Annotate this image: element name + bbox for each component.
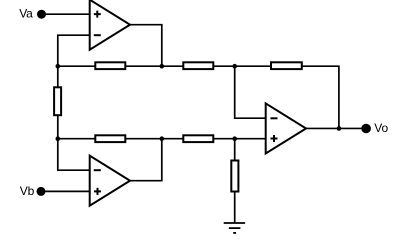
op-amp U1	[90, 0, 130, 50]
resistor R7	[231, 161, 238, 192]
op-amp U2	[90, 156, 130, 206]
resistor R5	[95, 135, 125, 142]
wire U1 output down to upper bus	[130, 25, 162, 66]
resistor R6	[183, 135, 213, 142]
wire U2 - input to node D	[58, 139, 90, 171]
wire node B down to U3 - input	[235, 66, 266, 118]
node output junction	[337, 126, 342, 131]
wire left vertical node A to node D	[57, 66, 59, 139]
wire U3 output to Vo terminal	[306, 127, 366, 129]
resistor R3	[271, 62, 302, 69]
resistor R1	[95, 62, 125, 69]
op-amp U3	[266, 103, 306, 153]
resistor R4	[54, 87, 61, 115]
wire Vb to U2 + input	[41, 190, 90, 192]
node U2 output junction	[160, 136, 165, 141]
terminal Va	[37, 10, 46, 19]
svg-text:Vo: Vo	[374, 121, 388, 135]
svg-text:Vb: Vb	[20, 184, 35, 198]
resistor R2	[183, 62, 213, 69]
wire upper bus node A to node B	[58, 65, 235, 67]
ground	[224, 223, 245, 233]
wire node C down to ground	[234, 139, 236, 223]
wire Va to U1 + input	[42, 13, 90, 15]
terminal Vb	[37, 187, 46, 196]
node B	[232, 64, 237, 69]
node A	[56, 64, 61, 69]
node U1 output junction	[160, 64, 165, 69]
svg-text:Va: Va	[19, 7, 33, 21]
wire lower bus node D to U3 + input	[58, 138, 266, 140]
wire U2 output up to lower bus	[130, 139, 162, 181]
terminal Vo	[361, 124, 371, 134]
wire U1 - input to node A	[58, 35, 90, 66]
node C	[232, 136, 237, 141]
wire feedback top from node B to output node	[235, 66, 339, 128]
node D	[56, 136, 61, 141]
